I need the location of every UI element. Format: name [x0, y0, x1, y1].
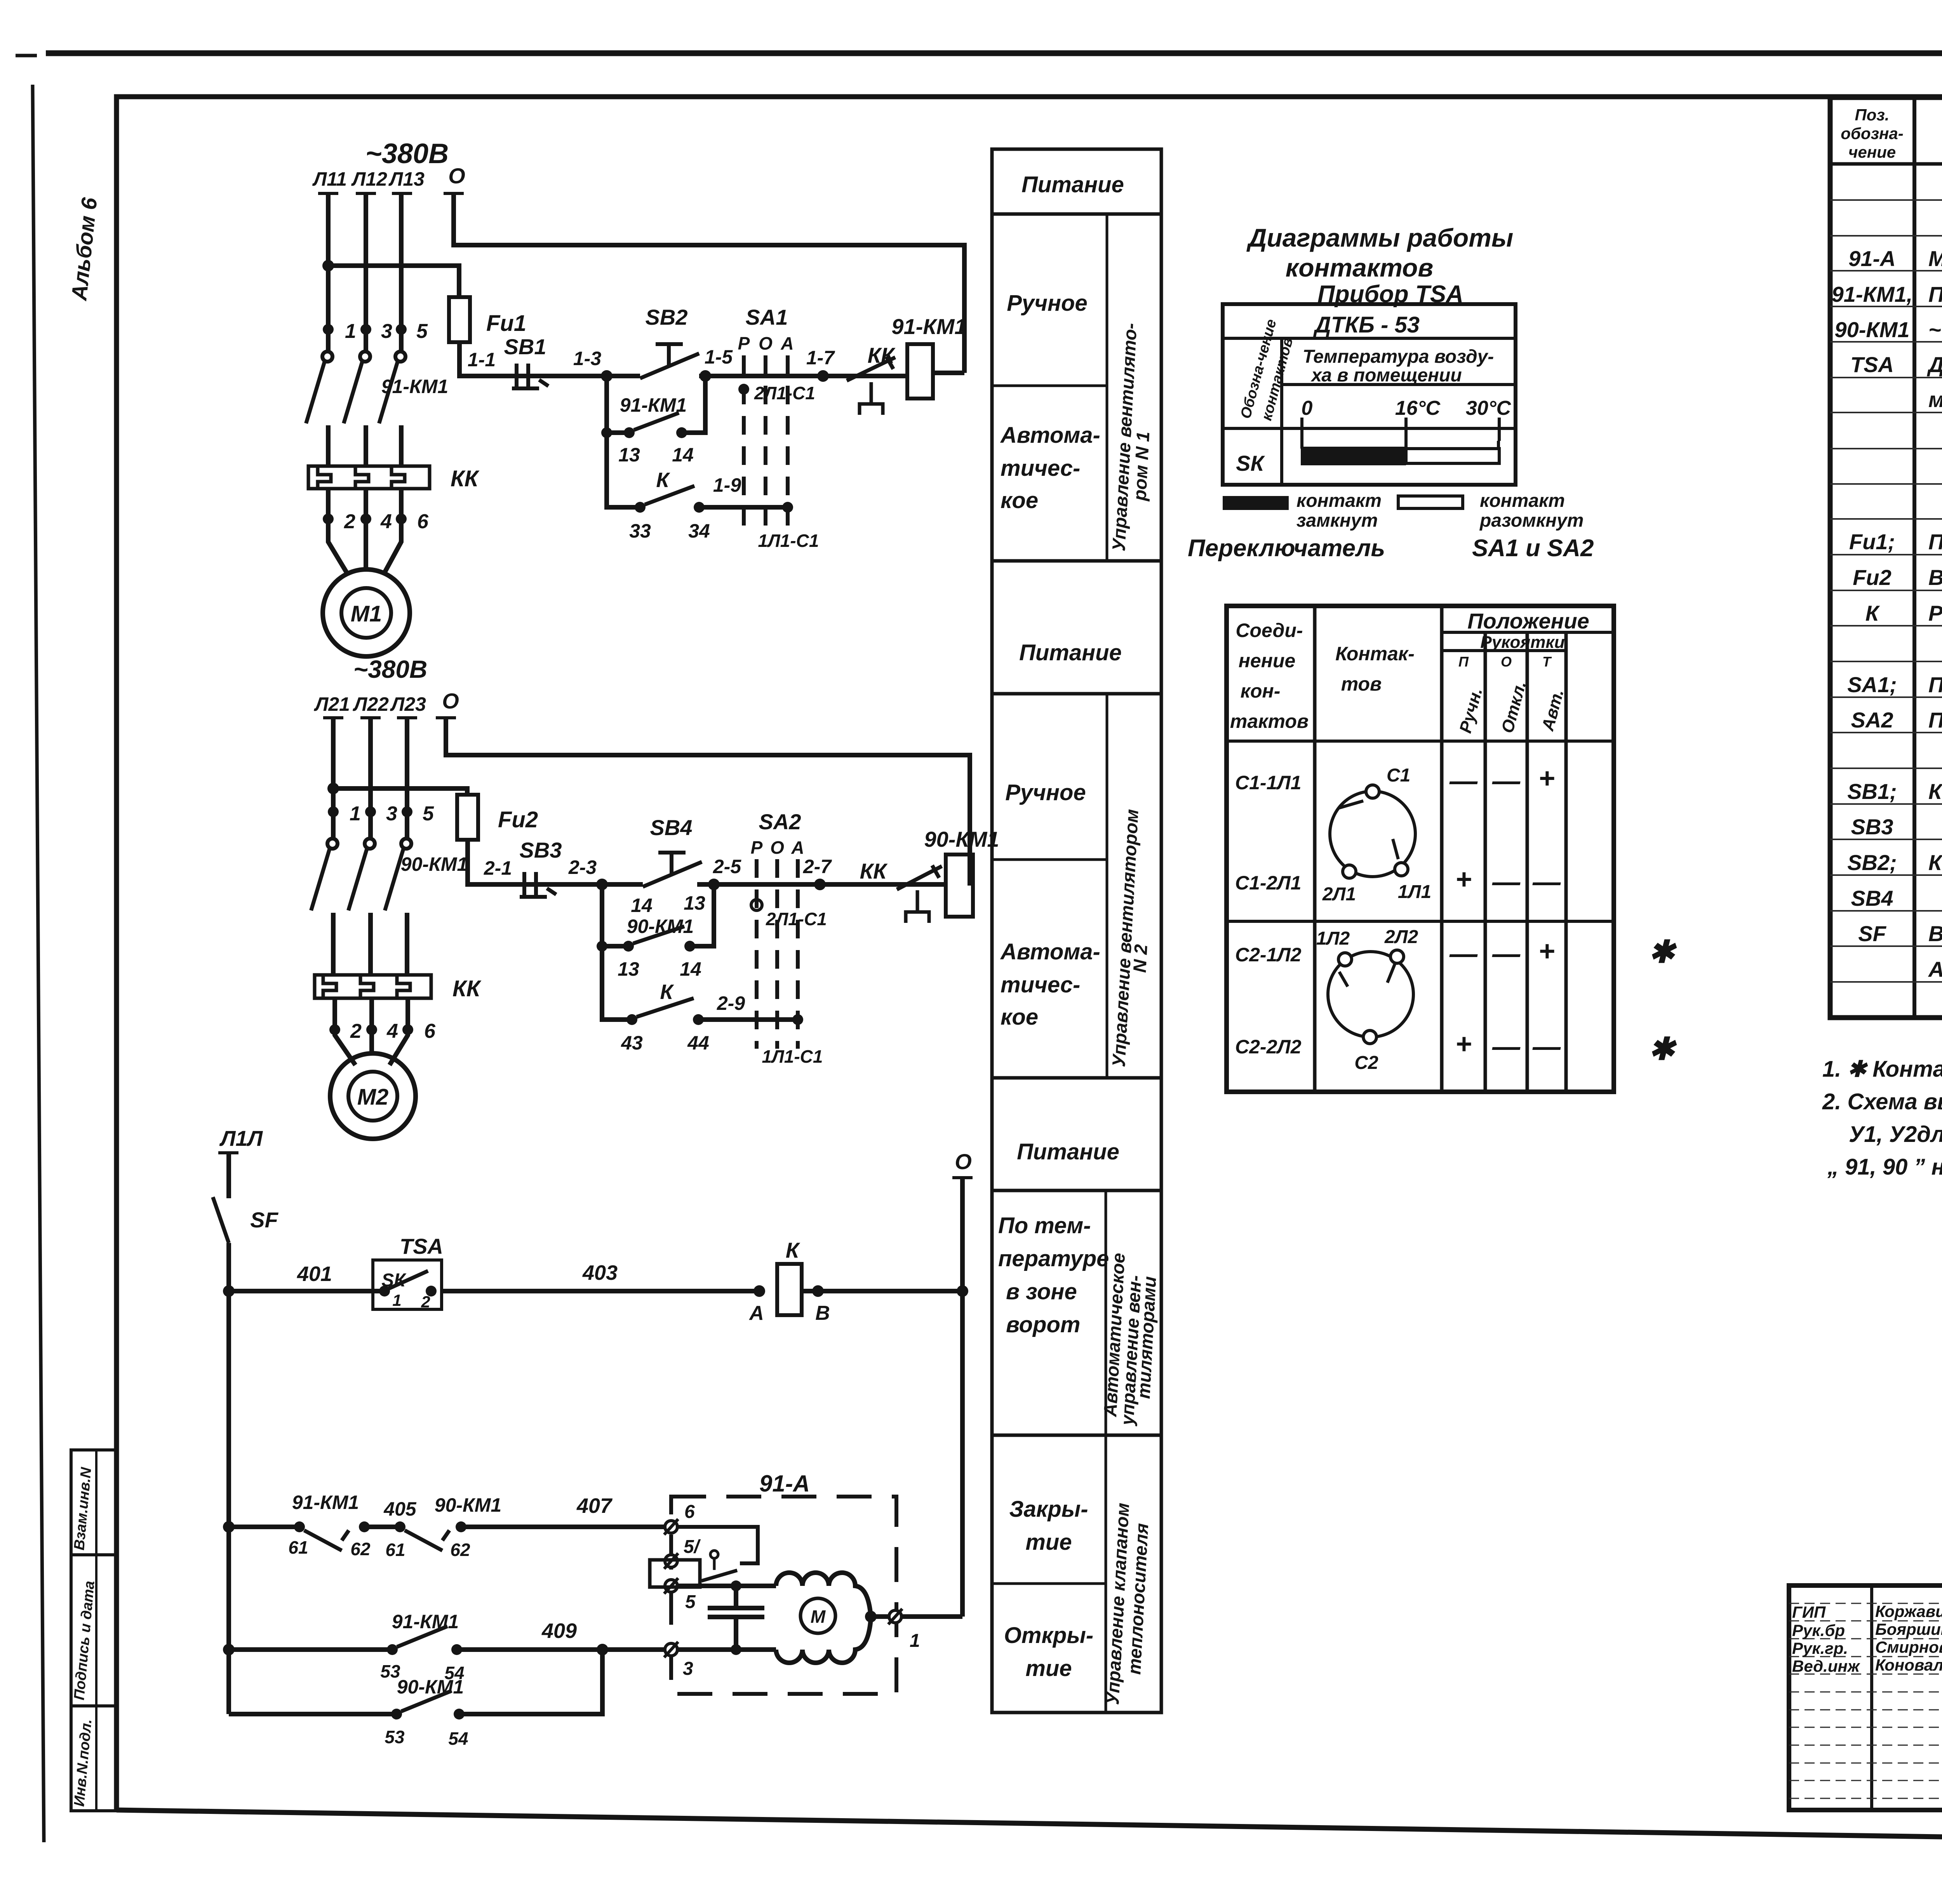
- svg-text:—: —: [1449, 938, 1478, 969]
- svg-text:О: О: [759, 333, 773, 353]
- control line 2 wire: [517, 882, 946, 887]
- terminal 1: [888, 1609, 920, 1651]
- junction bus / line 409: [223, 1644, 235, 1655]
- svg-text:В: В: [815, 1302, 830, 1324]
- svg-text:О: О: [442, 689, 459, 713]
- svg-text:мический,ДТКБ-53,шкала от 0до3: мический,ДТКБ-53,шкала от 0до30°с,: [1928, 387, 1942, 412]
- svg-text:С2-2Л2: С2-2Л2: [1235, 1036, 1302, 1058]
- wire branch to fuse Fu1: [328, 266, 459, 297]
- svg-text:3: 3: [386, 802, 397, 825]
- pin 1: [323, 324, 334, 335]
- svg-text:Предохранитель ППТ-10УЗ, с пл.: Предохранитель ППТ-10УЗ, с пл.: [1928, 529, 1942, 554]
- svg-text:2Л1-С1: 2Л1-С1: [754, 383, 815, 403]
- svg-text:14: 14: [631, 895, 653, 916]
- svg-text:2: 2: [344, 510, 355, 533]
- svg-text:Fu1;: Fu1;: [1849, 529, 1895, 554]
- wire O bus bottom: [960, 1178, 965, 1617]
- svg-text:1-5: 1-5: [705, 346, 733, 368]
- svg-text:Переключатель: Переключатель: [1188, 535, 1385, 562]
- fuse Fu1: [449, 297, 526, 342]
- svg-text:Л22: Л22: [353, 693, 389, 715]
- svg-text:Переключатель пакетный: Переключатель пакетный: [1928, 672, 1942, 697]
- svg-text:91-КМ1: 91-КМ1: [620, 394, 687, 416]
- svg-text:1-9: 1-9: [713, 474, 741, 496]
- wire neutral O to coil return circuit 2: [446, 719, 970, 886]
- svg-text:62: 62: [450, 1540, 470, 1560]
- svg-text:1: 1: [345, 320, 356, 343]
- svg-text:—: —: [1492, 867, 1521, 898]
- svg-text:2: 2: [350, 1020, 362, 1043]
- svg-text:О: О: [770, 837, 784, 858]
- limit switch housing: [650, 1560, 700, 1587]
- thermal relay KK heaters circuit 1: [308, 466, 480, 491]
- svg-text:тактов: тактов: [1230, 710, 1309, 732]
- svg-text:91-КМ1: 91-КМ1: [292, 1492, 359, 1513]
- node L21: [314, 693, 350, 718]
- position marks row C2-1L2: [1449, 936, 1555, 969]
- terminal 3: [664, 1642, 693, 1679]
- left margin stamp boxes: [71, 1450, 117, 1811]
- node B: [812, 1285, 830, 1324]
- svg-text:контактов: контактов: [1286, 253, 1433, 282]
- svg-text:91-КМ1,: 91-КМ1,: [1832, 282, 1913, 306]
- svg-text:6: 6: [417, 510, 429, 533]
- svg-text:4: 4: [386, 1020, 398, 1043]
- svg-text:2Л1-С1: 2Л1-С1: [766, 909, 827, 929]
- notes: [1822, 1056, 1942, 1180]
- svg-text:ТSA: ТSA: [1850, 352, 1894, 377]
- svg-text:Кнопка КЕ011УЗ, исп. 4, толк.: Кнопка КЕ011УЗ, исп. 4, толк. черн,: [1928, 850, 1942, 875]
- svg-text:407: 407: [576, 1494, 613, 1518]
- contact 91-KM1 61-62 closing: [229, 1492, 371, 1559]
- svg-text:в зоне: в зоне: [1006, 1279, 1077, 1304]
- legend open contact: [1398, 491, 1584, 531]
- contactor 90-KM1 main contacts: [311, 839, 411, 910]
- svg-text:N 2: N 2: [1129, 944, 1151, 973]
- svg-text:1Л2: 1Л2: [1316, 928, 1350, 949]
- net 1L1-C1 tap circuit 2: [762, 1014, 823, 1067]
- pin 5: [396, 324, 407, 335]
- svg-text:кое: кое: [1001, 1004, 1038, 1030]
- svg-text:ДТКБ - 53: ДТКБ - 53: [1313, 312, 1420, 338]
- svg-text:61: 61: [288, 1537, 308, 1558]
- wires KK to motor M2: [335, 998, 408, 1065]
- svg-text:SК: SК: [1236, 451, 1265, 475]
- svg-text:Кнопка КЕ011УЗ,исп. 5,толк. кр: Кнопка КЕ011УЗ,исп. 5,толк. красн,: [1928, 779, 1942, 804]
- svg-text:~380В: ~380В: [353, 655, 427, 683]
- heading switch SA1 and SA2: [1188, 535, 1594, 562]
- svg-text:409: 409: [541, 1619, 577, 1643]
- svg-text:6: 6: [424, 1020, 436, 1043]
- wire 403: [442, 1261, 759, 1291]
- wire branch to fuse Fu2: [333, 788, 467, 795]
- stop button SB1: [504, 334, 548, 388]
- svg-text:61: 61: [385, 1540, 405, 1560]
- svg-text:+: +: [1455, 1029, 1472, 1060]
- svg-text:С1-1Л1: С1-1Л1: [1235, 772, 1302, 794]
- svg-text:С1: С1: [1387, 765, 1410, 786]
- relay coil K: [777, 1238, 802, 1315]
- junction on L21 for fuse branch: [327, 783, 339, 794]
- svg-text:КК: КК: [452, 976, 482, 1001]
- svg-text:13: 13: [618, 958, 639, 980]
- svg-text:~ 220В: ~ 220В: [1928, 317, 1942, 342]
- svg-text:Fu1: Fu1: [486, 311, 526, 336]
- breaker SF: [213, 1197, 279, 1243]
- start button SB4: [643, 815, 702, 887]
- wire fuse to control line node 1-1: [459, 342, 493, 376]
- junction on L11 for fuse branch: [322, 260, 334, 272]
- svg-text:П: П: [1458, 654, 1469, 670]
- svg-text:ПП2-16/Н2У4Б, исп. I: ПП2-16/Н2У4Б, исп. I: [1928, 708, 1942, 732]
- svg-text:✱: ✱: [1648, 935, 1677, 969]
- node A: [748, 1285, 765, 1324]
- contact SK bar diagram: [1236, 433, 1499, 475]
- svg-text:Ручное: Ручное: [1007, 291, 1087, 316]
- unused contacts asterisks: [1648, 935, 1677, 1066]
- svg-text:ха в помещении: ха в помещении: [1310, 365, 1462, 386]
- svg-text:ТSA: ТSA: [400, 1234, 443, 1258]
- svg-text:SB4: SB4: [650, 815, 693, 840]
- left control bus wire: [226, 1243, 231, 1714]
- svg-text:По тем-: По тем-: [998, 1213, 1091, 1238]
- svg-text:тичес-: тичес-: [1001, 456, 1080, 481]
- wire 409: [457, 1619, 665, 1650]
- svg-text:+: +: [1455, 864, 1472, 895]
- SA2 contact diagram circle: [1328, 950, 1413, 1044]
- svg-text:33: 33: [629, 520, 651, 542]
- svg-text:2: 2: [421, 1293, 430, 1311]
- svg-text:—: —: [1492, 938, 1521, 969]
- svg-text:Т: Т: [1542, 654, 1552, 670]
- svg-text:13: 13: [684, 892, 705, 914]
- svg-text:тие: тие: [1025, 1656, 1072, 1681]
- wire 407: [461, 1494, 672, 1527]
- wires KK to motor M1: [328, 489, 401, 574]
- node O (neutral) circuit 2: [436, 689, 459, 718]
- svg-text:О: О: [1501, 654, 1512, 670]
- svg-text:Бояршина: Бояршина: [1875, 1620, 1942, 1638]
- svg-text:Реле ПЭ-37-22-УЗ,~220В: Реле ПЭ-37-22-УЗ,~220В: [1928, 601, 1942, 625]
- svg-text:34: 34: [688, 520, 710, 542]
- pin 4 motor 2: [366, 1024, 377, 1035]
- coil 91-KM1: [891, 314, 966, 399]
- wire terminal 5 row: [677, 1584, 776, 1588]
- svg-text:5/: 5/: [684, 1537, 701, 1557]
- svg-text:Рук.бр: Рук.бр: [1792, 1621, 1845, 1639]
- svg-text:ГИП: ГИП: [1792, 1603, 1826, 1621]
- net 1L1-C1 tap: [758, 502, 819, 551]
- svg-text:SВ2;: SВ2;: [1847, 850, 1897, 875]
- svg-text:2-9: 2-9: [717, 992, 745, 1014]
- stop button SB3: [520, 838, 562, 897]
- svg-text:1: 1: [910, 1631, 920, 1651]
- pin 4: [360, 513, 371, 524]
- svg-text:SF: SF: [250, 1208, 278, 1232]
- svg-text:Р: Р: [738, 333, 750, 353]
- svg-text:+: +: [1538, 763, 1555, 794]
- svg-text:2Л1: 2Л1: [1322, 884, 1356, 905]
- svg-text:Механизм исполнительный: Механизм исполнительный: [1928, 246, 1942, 271]
- wire L1L tap: [218, 1126, 263, 1198]
- svg-text:Соеди-: Соеди-: [1236, 620, 1303, 641]
- node L22: [353, 693, 389, 718]
- svg-text:90-КМ1: 90-КМ1: [435, 1494, 501, 1516]
- svg-text:SА1;: SА1;: [1847, 672, 1897, 697]
- svg-text:3: 3: [683, 1659, 693, 1679]
- sheet left edge line: [33, 85, 44, 1842]
- actuator motor M windings: [776, 1573, 871, 1663]
- svg-text:А: А: [748, 1302, 764, 1324]
- svg-text:кон-: кон-: [1241, 680, 1281, 702]
- svg-text:Питание: Питание: [1021, 172, 1124, 197]
- svg-text:К: К: [1865, 601, 1880, 625]
- svg-text:Ручное: Ручное: [1005, 780, 1086, 805]
- node L11: [312, 168, 347, 193]
- svg-text:6: 6: [684, 1502, 695, 1522]
- node 2-7: [803, 856, 832, 890]
- svg-text:—: —: [1492, 1031, 1521, 1062]
- wire phase L21: [331, 719, 336, 839]
- coil 90-KM1: [924, 827, 999, 917]
- svg-text:1-3: 1-3: [573, 348, 601, 369]
- svg-text:„ 91, 90 ” на „ 89, 88; 87, 8: „ 91, 90 ” на „ 89, 88; 87, 86; 68, 69; …: [1827, 1154, 1942, 1180]
- svg-text:90-КМ1: 90-КМ1: [1834, 317, 1909, 342]
- wire L13 lower: [399, 425, 404, 467]
- thermal contact KK circuit 1: [847, 343, 896, 415]
- wire 401: [229, 1262, 385, 1291]
- contactor 91-KM1 main contacts: [306, 352, 405, 423]
- position marks row C1-2L1: [1455, 864, 1561, 898]
- svg-text:Контак-: Контак-: [1335, 643, 1415, 665]
- svg-text:✱: ✱: [1648, 1032, 1677, 1066]
- svg-text:Коржавина: Коржавина: [1875, 1602, 1942, 1620]
- svg-text:1Л1-С1: 1Л1-С1: [762, 1046, 823, 1067]
- start button SB2: [640, 305, 699, 378]
- svg-text:Вст. ВТФ6УЗ, ТУ16-521. 037-75: Вст. ВТФ6УЗ, ТУ16-521. 037-75: [1928, 565, 1942, 590]
- svg-text:91-А: 91-А: [759, 1471, 810, 1497]
- svg-text:Смирнова: Смирнова: [1875, 1638, 1942, 1656]
- svg-text:2-7: 2-7: [803, 856, 832, 877]
- svg-text:SВ4: SВ4: [1851, 886, 1893, 910]
- svg-text:замкнут: замкнут: [1296, 510, 1378, 531]
- svg-text:Датчик-реле камерный бимета-: Датчик-реле камерный бимета-: [1927, 352, 1942, 377]
- terminal 51: [664, 1537, 701, 1569]
- svg-text:А: А: [791, 837, 804, 858]
- svg-text:5: 5: [685, 1592, 696, 1612]
- wire phase L23: [405, 719, 409, 839]
- terminal 5: [664, 1578, 696, 1612]
- svg-text:контакт: контакт: [1480, 491, 1565, 511]
- svg-text:чение: чение: [1848, 143, 1896, 161]
- wire bypass to 409: [459, 1650, 602, 1714]
- svg-text:1Л1: 1Л1: [1398, 882, 1431, 902]
- svg-text:403: 403: [582, 1261, 618, 1284]
- svg-text:+: +: [1538, 936, 1555, 967]
- svg-text:Л13: Л13: [388, 168, 425, 190]
- svg-text:14: 14: [672, 444, 694, 466]
- pin 5 motor 2: [402, 806, 412, 817]
- svg-text:М: М: [811, 1606, 826, 1627]
- svg-text:90-КМ1: 90-КМ1: [924, 827, 999, 851]
- selector switch SA2: [751, 809, 804, 1049]
- svg-text:кое: кое: [1001, 488, 1038, 513]
- svg-text:У1, У2для У3...У14 она аналоги: У1, У2для У3...У14 она аналогична с заме…: [1849, 1122, 1942, 1147]
- svg-text:1: 1: [350, 802, 361, 825]
- junction 403 / O bus: [957, 1285, 968, 1297]
- pin 1 motor 2: [328, 806, 339, 817]
- svg-text:—: —: [1532, 867, 1561, 898]
- pin 6: [396, 513, 407, 524]
- svg-text:16°С: 16°С: [1395, 397, 1441, 419]
- actuator 91-A enclosure: [671, 1471, 896, 1694]
- svg-text:62: 62: [350, 1539, 371, 1559]
- svg-text:SB1: SB1: [504, 334, 546, 359]
- svg-text:Питание: Питание: [1019, 640, 1122, 665]
- wire L22 lower: [368, 913, 373, 976]
- svg-text:—: —: [1492, 766, 1521, 797]
- svg-text:2. Схема выполнена для воздушн: 2. Схема выполнена для воздушно-тепловой…: [1822, 1089, 1942, 1114]
- temperature sensor TSA contact SK pins 1-2: [373, 1234, 443, 1311]
- svg-text:тичес-: тичес-: [1001, 972, 1080, 997]
- svg-text:Вед.инж: Вед.инж: [1792, 1657, 1860, 1675]
- svg-text:2-5: 2-5: [713, 856, 741, 877]
- thermal relay KK heaters circuit 2: [315, 975, 482, 1001]
- terminal 6: [664, 1502, 695, 1535]
- svg-text:М2: М2: [357, 1084, 389, 1110]
- relay contact K 43-44 with node 2-9: [602, 946, 798, 1054]
- svg-text:SA2: SA2: [759, 809, 801, 834]
- svg-text:Fu2: Fu2: [498, 807, 538, 832]
- svg-text:405: 405: [383, 1498, 417, 1520]
- junction motor output: [865, 1611, 877, 1622]
- svg-text:401: 401: [297, 1262, 332, 1286]
- wire phase L12: [364, 194, 368, 352]
- contact 90-KM1 61-62 closing: [385, 1494, 501, 1560]
- wire L12 lower: [364, 425, 368, 467]
- parts list table: [1830, 97, 1942, 1018]
- svg-text:К: К: [656, 468, 670, 492]
- svg-text:О: О: [955, 1149, 972, 1174]
- wire L11 lower: [326, 425, 331, 467]
- net 2L1-C1 tap circuit 2: [751, 900, 827, 929]
- junction bus / line 401: [223, 1285, 235, 1297]
- svg-text:М1: М1: [351, 601, 382, 627]
- node 2-3: [568, 856, 608, 890]
- wire phase L11: [326, 194, 331, 352]
- svg-text:С1-2Л1: С1-2Л1: [1235, 872, 1302, 894]
- svg-text:SF: SF: [1858, 921, 1886, 946]
- position marks row C2-2L2: [1455, 1029, 1561, 1062]
- svg-text:53: 53: [385, 1727, 405, 1747]
- TSA diagram table: [1223, 304, 1516, 485]
- junction 409 / bypass: [597, 1644, 608, 1655]
- junction capacitor top: [731, 1580, 741, 1591]
- svg-text:SА1 и SА2: SА1 и SА2: [1472, 535, 1594, 562]
- svg-text:ворот: ворот: [1006, 1312, 1080, 1337]
- svg-text:обозна-: обозна-: [1841, 124, 1903, 143]
- svg-text:Рукоятки: Рукоятки: [1480, 633, 1564, 652]
- signature table: [1789, 1586, 1942, 1810]
- svg-text:Выключатель автоматический: Выключатель автоматический: [1928, 921, 1942, 946]
- svg-text:А: А: [780, 333, 794, 353]
- svg-text:К: К: [660, 980, 674, 1004]
- fuse Fu2: [457, 795, 538, 840]
- svg-text:нение: нение: [1239, 650, 1296, 672]
- svg-text:Л21: Л21: [314, 693, 350, 715]
- wire L21 lower: [331, 913, 336, 976]
- control line 1 wire: [493, 374, 907, 378]
- node O (neutral) bottom: [952, 1149, 973, 1178]
- svg-text:ром N 1: ром N 1: [1129, 431, 1153, 502]
- svg-text:2Л2: 2Л2: [1384, 927, 1418, 947]
- svg-text:Fu2: Fu2: [1853, 565, 1892, 590]
- contact 90-KM1 53-54 bottom: [229, 1676, 468, 1749]
- svg-text:Л12: Л12: [351, 168, 387, 190]
- svg-text:К: К: [786, 1238, 800, 1262]
- position marks row C1-1L1: [1449, 763, 1555, 797]
- holding contact 91-KM1 13-14: [601, 376, 705, 466]
- wire B to O bus: [802, 1289, 962, 1293]
- node 1-3: [573, 348, 613, 382]
- selector switch SA1: [738, 305, 794, 532]
- net 2L1-C1 tap: [738, 383, 815, 403]
- pin 3: [360, 324, 371, 335]
- holding contact 90-KM1 13-14: [597, 884, 714, 980]
- function column table: [992, 149, 1161, 1713]
- SA1 contact diagram circle: [1330, 785, 1415, 878]
- svg-text:3: 3: [381, 320, 392, 343]
- svg-text:—: —: [1449, 766, 1478, 797]
- motor M2: [330, 1053, 416, 1139]
- svg-text:Питание: Питание: [1017, 1139, 1119, 1164]
- svg-text:контакт: контакт: [1296, 491, 1382, 511]
- wire neutral O to coil return: [454, 194, 964, 373]
- legend closed contact: [1223, 491, 1382, 531]
- node 2-5: [708, 856, 741, 890]
- wire motor to terminal 1 and O bus: [871, 1614, 962, 1619]
- temperature scale 0..16..30 C: [1302, 397, 1512, 441]
- wire L23 lower: [405, 913, 409, 976]
- svg-text:43: 43: [621, 1032, 643, 1054]
- node O (neutral) circuit 1: [444, 164, 465, 193]
- svg-text:тов: тов: [1341, 673, 1382, 695]
- svg-text:Температура возду-: Температура возду-: [1303, 346, 1494, 367]
- node 405: [364, 1498, 417, 1527]
- svg-text:0: 0: [1302, 397, 1313, 419]
- wire phase L13: [399, 194, 404, 352]
- svg-text:С2: С2: [1354, 1053, 1378, 1073]
- svg-text:SB2: SB2: [646, 305, 688, 329]
- svg-text:5: 5: [416, 320, 428, 343]
- svg-text:4: 4: [380, 510, 392, 533]
- pin 2: [323, 513, 334, 524]
- svg-text:90-КМ1: 90-КМ1: [401, 853, 468, 875]
- svg-text:91-КМ1: 91-КМ1: [392, 1611, 459, 1632]
- svg-text:1. ✱ Контакты не используются: 1. ✱ Контакты не используются.: [1822, 1056, 1942, 1082]
- SA switch position table: [1227, 606, 1614, 1092]
- svg-text:5: 5: [423, 802, 434, 825]
- svg-text:Автома-: Автома-: [1000, 423, 1100, 448]
- svg-text:30°С: 30°С: [1466, 397, 1512, 419]
- svg-text:91-А: 91-А: [1848, 246, 1895, 271]
- svg-text:пературе: пературе: [998, 1246, 1109, 1271]
- svg-text:SВ3: SВ3: [1851, 815, 1893, 839]
- svg-text:1-7: 1-7: [806, 347, 835, 369]
- svg-text:1-1: 1-1: [468, 349, 496, 371]
- contact 91-KM1 53-54: [229, 1611, 465, 1683]
- svg-text:1Л1-С1: 1Л1-С1: [758, 531, 819, 551]
